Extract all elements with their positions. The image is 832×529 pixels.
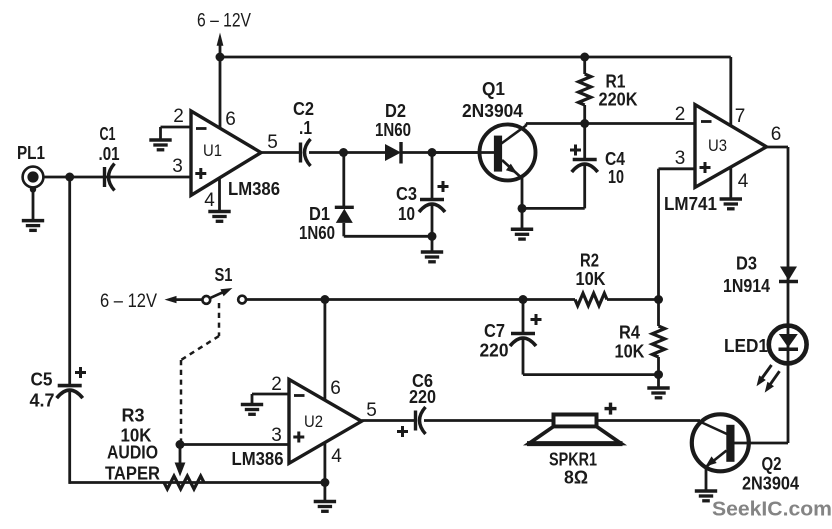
svg-text:R3: R3 — [122, 406, 145, 426]
svg-text:10K: 10K — [576, 269, 606, 289]
svg-text:1N60: 1N60 — [375, 120, 411, 140]
svg-text:TAPER: TAPER — [105, 464, 160, 484]
svg-text:R4: R4 — [619, 323, 640, 343]
svg-text:7: 7 — [735, 106, 746, 127]
svg-text:D1: D1 — [309, 204, 330, 224]
svg-text:2N3904: 2N3904 — [742, 474, 799, 494]
svg-text:.01: .01 — [99, 144, 120, 164]
svg-text:C4: C4 — [605, 149, 625, 169]
svg-text:C1: C1 — [100, 124, 116, 144]
svg-text:S1: S1 — [215, 265, 233, 285]
svg-text:Q1: Q1 — [482, 79, 505, 99]
svg-text:2: 2 — [271, 374, 282, 395]
svg-text:2: 2 — [675, 104, 686, 125]
svg-text:3: 3 — [271, 425, 282, 446]
svg-text:R1: R1 — [606, 72, 626, 92]
svg-text:6 – 12V: 6 – 12V — [197, 11, 251, 32]
svg-text:2: 2 — [173, 106, 184, 127]
svg-text:6: 6 — [225, 109, 236, 130]
svg-text:220: 220 — [409, 387, 436, 407]
svg-text:R2: R2 — [580, 251, 599, 271]
svg-text:C7: C7 — [484, 321, 505, 341]
svg-text:LM386: LM386 — [232, 449, 284, 469]
svg-text:AUDIO: AUDIO — [107, 443, 158, 463]
svg-text:U3: U3 — [708, 136, 727, 155]
svg-text:10: 10 — [608, 167, 624, 187]
svg-text:C5: C5 — [31, 370, 53, 390]
svg-text:C3: C3 — [396, 184, 417, 204]
svg-text:4: 4 — [738, 171, 749, 192]
svg-text:LM741: LM741 — [664, 194, 717, 214]
svg-text:SPKR1: SPKR1 — [549, 450, 597, 470]
svg-text:6: 6 — [771, 124, 782, 145]
svg-text:U2: U2 — [304, 412, 323, 431]
svg-text:PL1: PL1 — [17, 143, 45, 163]
svg-text:D2: D2 — [385, 101, 406, 121]
svg-text:5: 5 — [366, 400, 377, 421]
svg-text:2N3904: 2N3904 — [462, 101, 523, 121]
svg-text:C2: C2 — [293, 99, 314, 119]
svg-text:6: 6 — [330, 378, 341, 399]
svg-text:5: 5 — [267, 132, 278, 153]
svg-text:D3: D3 — [736, 254, 757, 274]
svg-text:4: 4 — [204, 190, 215, 211]
svg-text:LM386: LM386 — [228, 179, 280, 199]
svg-text:220K: 220K — [599, 90, 638, 110]
svg-text:3: 3 — [675, 148, 686, 169]
svg-text:SeekIC.com: SeekIC.com — [712, 499, 832, 521]
svg-text:Q2: Q2 — [762, 454, 782, 474]
svg-text:1N60: 1N60 — [299, 223, 335, 243]
svg-text:U1: U1 — [203, 141, 222, 160]
svg-text:1N914: 1N914 — [723, 276, 770, 296]
svg-text:3: 3 — [172, 156, 183, 177]
svg-text:220: 220 — [480, 341, 509, 361]
svg-text:4: 4 — [331, 446, 342, 467]
svg-text:.1: .1 — [299, 118, 312, 138]
svg-text:6 – 12V: 6 – 12V — [100, 291, 157, 312]
svg-text:4.7: 4.7 — [30, 391, 55, 411]
svg-text:10K: 10K — [615, 342, 645, 362]
svg-text:10: 10 — [398, 204, 415, 224]
svg-text:8Ω: 8Ω — [564, 468, 588, 488]
svg-text:LED1: LED1 — [724, 336, 768, 356]
